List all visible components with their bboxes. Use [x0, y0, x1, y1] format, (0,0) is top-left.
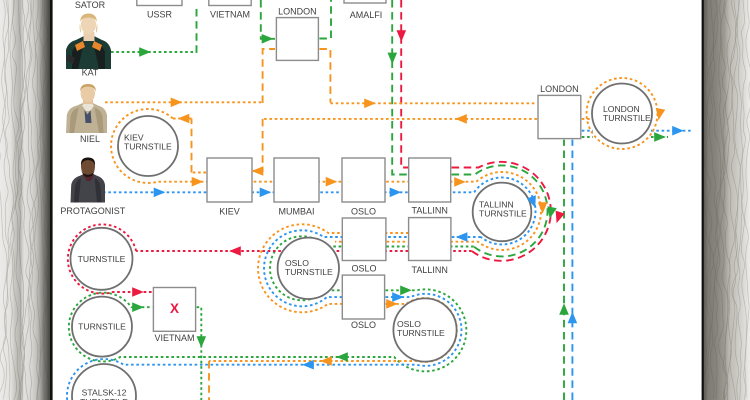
box VIETNAM top	[209, 0, 251, 6]
arrow orange	[455, 114, 467, 124]
arrow green	[545, 206, 557, 219]
wire green tallinn box to tallinn turnstile loop	[452, 165, 548, 256]
arrow orange	[326, 177, 338, 187]
arrow blue	[260, 188, 272, 198]
wire red lane left to left turnstile	[136, 250, 472, 252]
arrow green	[654, 132, 666, 142]
wire green row2 lane into oslo turnstile loop and out to row3 oslo box	[270, 236, 474, 300]
box MUMBAI	[274, 158, 319, 202]
wire green out of top london box to top	[319, 0, 331, 39]
wire orange from top london box down and right to right london box	[319, 49, 330, 103]
svg-text:VIETNAM: VIETNAM	[154, 333, 194, 343]
arrow red	[132, 287, 144, 297]
left map border	[0, 0, 53, 400]
svg-text:OSLO: OSLO	[351, 320, 376, 330]
svg-text:KIEV: KIEV	[219, 207, 240, 217]
photo NIEL	[66, 84, 107, 133]
arrow blue	[672, 126, 684, 136]
wire green vertical up into right london box	[563, 140, 565, 400]
wire orange main lane kiev-mumbai-oslo-tallinn to tallinn turnstile loop	[206, 172, 541, 250]
box TALLINN row2	[409, 218, 451, 261]
turnstile circle left red	[71, 228, 133, 290]
arrow orange	[192, 177, 204, 187]
wire green down into top london box	[261, 0, 275, 39]
arrow orange	[171, 98, 183, 108]
svg-text:TURNSTILE: TURNSTILE	[397, 328, 445, 338]
photo KAT	[66, 14, 111, 70]
arrow blue	[154, 188, 166, 198]
arrow orange	[320, 356, 332, 366]
wire blue row2 lane into oslo turnstile loop and out to row3	[264, 230, 481, 306]
right map border	[702, 0, 750, 400]
wire red loop around left turnstile into vietnam box	[68, 224, 153, 293]
svg-text:AMALFI: AMALFI	[350, 10, 383, 20]
arrow blue	[302, 360, 314, 370]
arrow green	[336, 352, 348, 362]
arrow red	[552, 211, 565, 225]
svg-text:TURNSTILE: TURNSTILE	[124, 142, 172, 152]
svg-text:TURNSTILE: TURNSTILE	[285, 267, 333, 277]
arrow green	[132, 302, 144, 312]
wire blue row3 oslo box to lower oslo turnstile, back left to stalsk turnstile	[67, 294, 462, 400]
box KIEV	[207, 158, 252, 202]
wire orange kiev turnstile loop	[111, 109, 206, 183]
arrow blue	[456, 232, 468, 242]
arrow red	[397, 30, 407, 42]
wire kat to ussr box	[111, 51, 197, 53]
turnstile circle OSLO lower	[393, 298, 456, 361]
arrow green	[388, 53, 398, 65]
svg-text:TURNSTILE: TURNSTILE	[78, 322, 126, 332]
wire green row3 oslo box to lower oslo turnstile loop, back left to left turnstile, into vietnam	[69, 289, 467, 371]
arrow green	[559, 303, 569, 315]
turnstile circle KIEV	[118, 116, 178, 176]
arrow green	[400, 286, 412, 296]
svg-text:LONDON: LONDON	[540, 84, 579, 94]
wire red tallinn box to tallinn turnstile outer loop	[452, 162, 551, 261]
arrow green	[197, 336, 207, 348]
wire orange upper lane to oslo turnstile outer loop and out to row3	[258, 224, 409, 312]
svg-text:PROTAGONIST: PROTAGONIST	[60, 206, 125, 216]
box OSLO row2	[342, 218, 386, 261]
svg-text:TALLINN: TALLINN	[412, 265, 448, 275]
turnstile circle OSLO upper	[278, 238, 339, 299]
arrow green	[139, 47, 151, 57]
wire orange niel lane to top london box	[105, 101, 263, 103]
arrow orange	[364, 99, 376, 109]
wire orange row3 oslo box to lower oslo turnstile, back left and down off page	[209, 298, 457, 362]
arrow orange	[178, 114, 190, 124]
svg-text:MUMBAI: MUMBAI	[279, 207, 315, 217]
wire green vietnam box down off page	[197, 307, 202, 400]
wire orange return from right london box back left	[263, 118, 537, 120]
arrow blue	[392, 292, 404, 302]
svg-text:TURNSTILE: TURNSTILE	[78, 254, 126, 264]
turnstile circle TALLINN	[473, 183, 532, 242]
photo PROTAGONIST	[71, 158, 106, 203]
arrow blue	[568, 312, 578, 324]
arrow blue	[527, 195, 540, 209]
wire orange loop around london turnstile	[587, 78, 658, 149]
arrow orange	[654, 108, 665, 121]
turnstile circle LONDON	[592, 84, 652, 144]
svg-text:STALSK-12: STALSK-12	[82, 388, 127, 398]
svg-text:TURNSTILE: TURNSTILE	[479, 209, 527, 219]
wire blue protagonist lane to tallinn turnstile	[103, 191, 474, 193]
svg-text:TURNSTILE: TURNSTILE	[603, 113, 651, 123]
wire green from amalfi down to tallinn box	[392, 0, 408, 175]
arrow orange	[538, 202, 548, 214]
arrow blue	[390, 188, 402, 198]
svg-text:OSLO: OSLO	[351, 207, 376, 217]
svg-text:KAT: KAT	[82, 68, 99, 78]
svg-text:X: X	[170, 301, 179, 316]
svg-text:OSLO: OSLO	[351, 264, 376, 274]
arrow orange	[252, 166, 264, 176]
svg-text:TALLINN: TALLINN	[412, 206, 448, 216]
svg-text:NIEL: NIEL	[80, 134, 100, 144]
arrow green	[262, 34, 274, 44]
wire blue vertical up into right london box	[571, 140, 573, 400]
box TALLINN row1	[409, 158, 451, 202]
box USSR	[137, 0, 182, 6]
turnstile circle left green	[72, 297, 132, 357]
wire red from amalfi down into tallinn box	[401, 0, 408, 168]
wire green out of london turnstile right	[582, 136, 593, 138]
svg-text:LONDON: LONDON	[278, 7, 317, 17]
arrow orange	[454, 177, 466, 187]
box VIETNAM with X	[153, 288, 195, 332]
arrow red	[229, 246, 241, 256]
wire orange kiev box out left, up into kiev turnstile	[192, 172, 207, 174]
arrow orange	[386, 299, 398, 309]
turnstile circle STALSK-12	[72, 364, 136, 400]
svg-text:VIETNAM: VIETNAM	[210, 10, 250, 20]
svg-text:SATOR: SATOR	[75, 0, 106, 10]
wire blue out of london box through turnstile right	[582, 130, 593, 132]
box AMALFI	[344, 0, 386, 3]
svg-text:USSR: USSR	[147, 10, 173, 20]
box OSLO row1	[342, 158, 385, 202]
box OSLO row3	[342, 275, 384, 319]
